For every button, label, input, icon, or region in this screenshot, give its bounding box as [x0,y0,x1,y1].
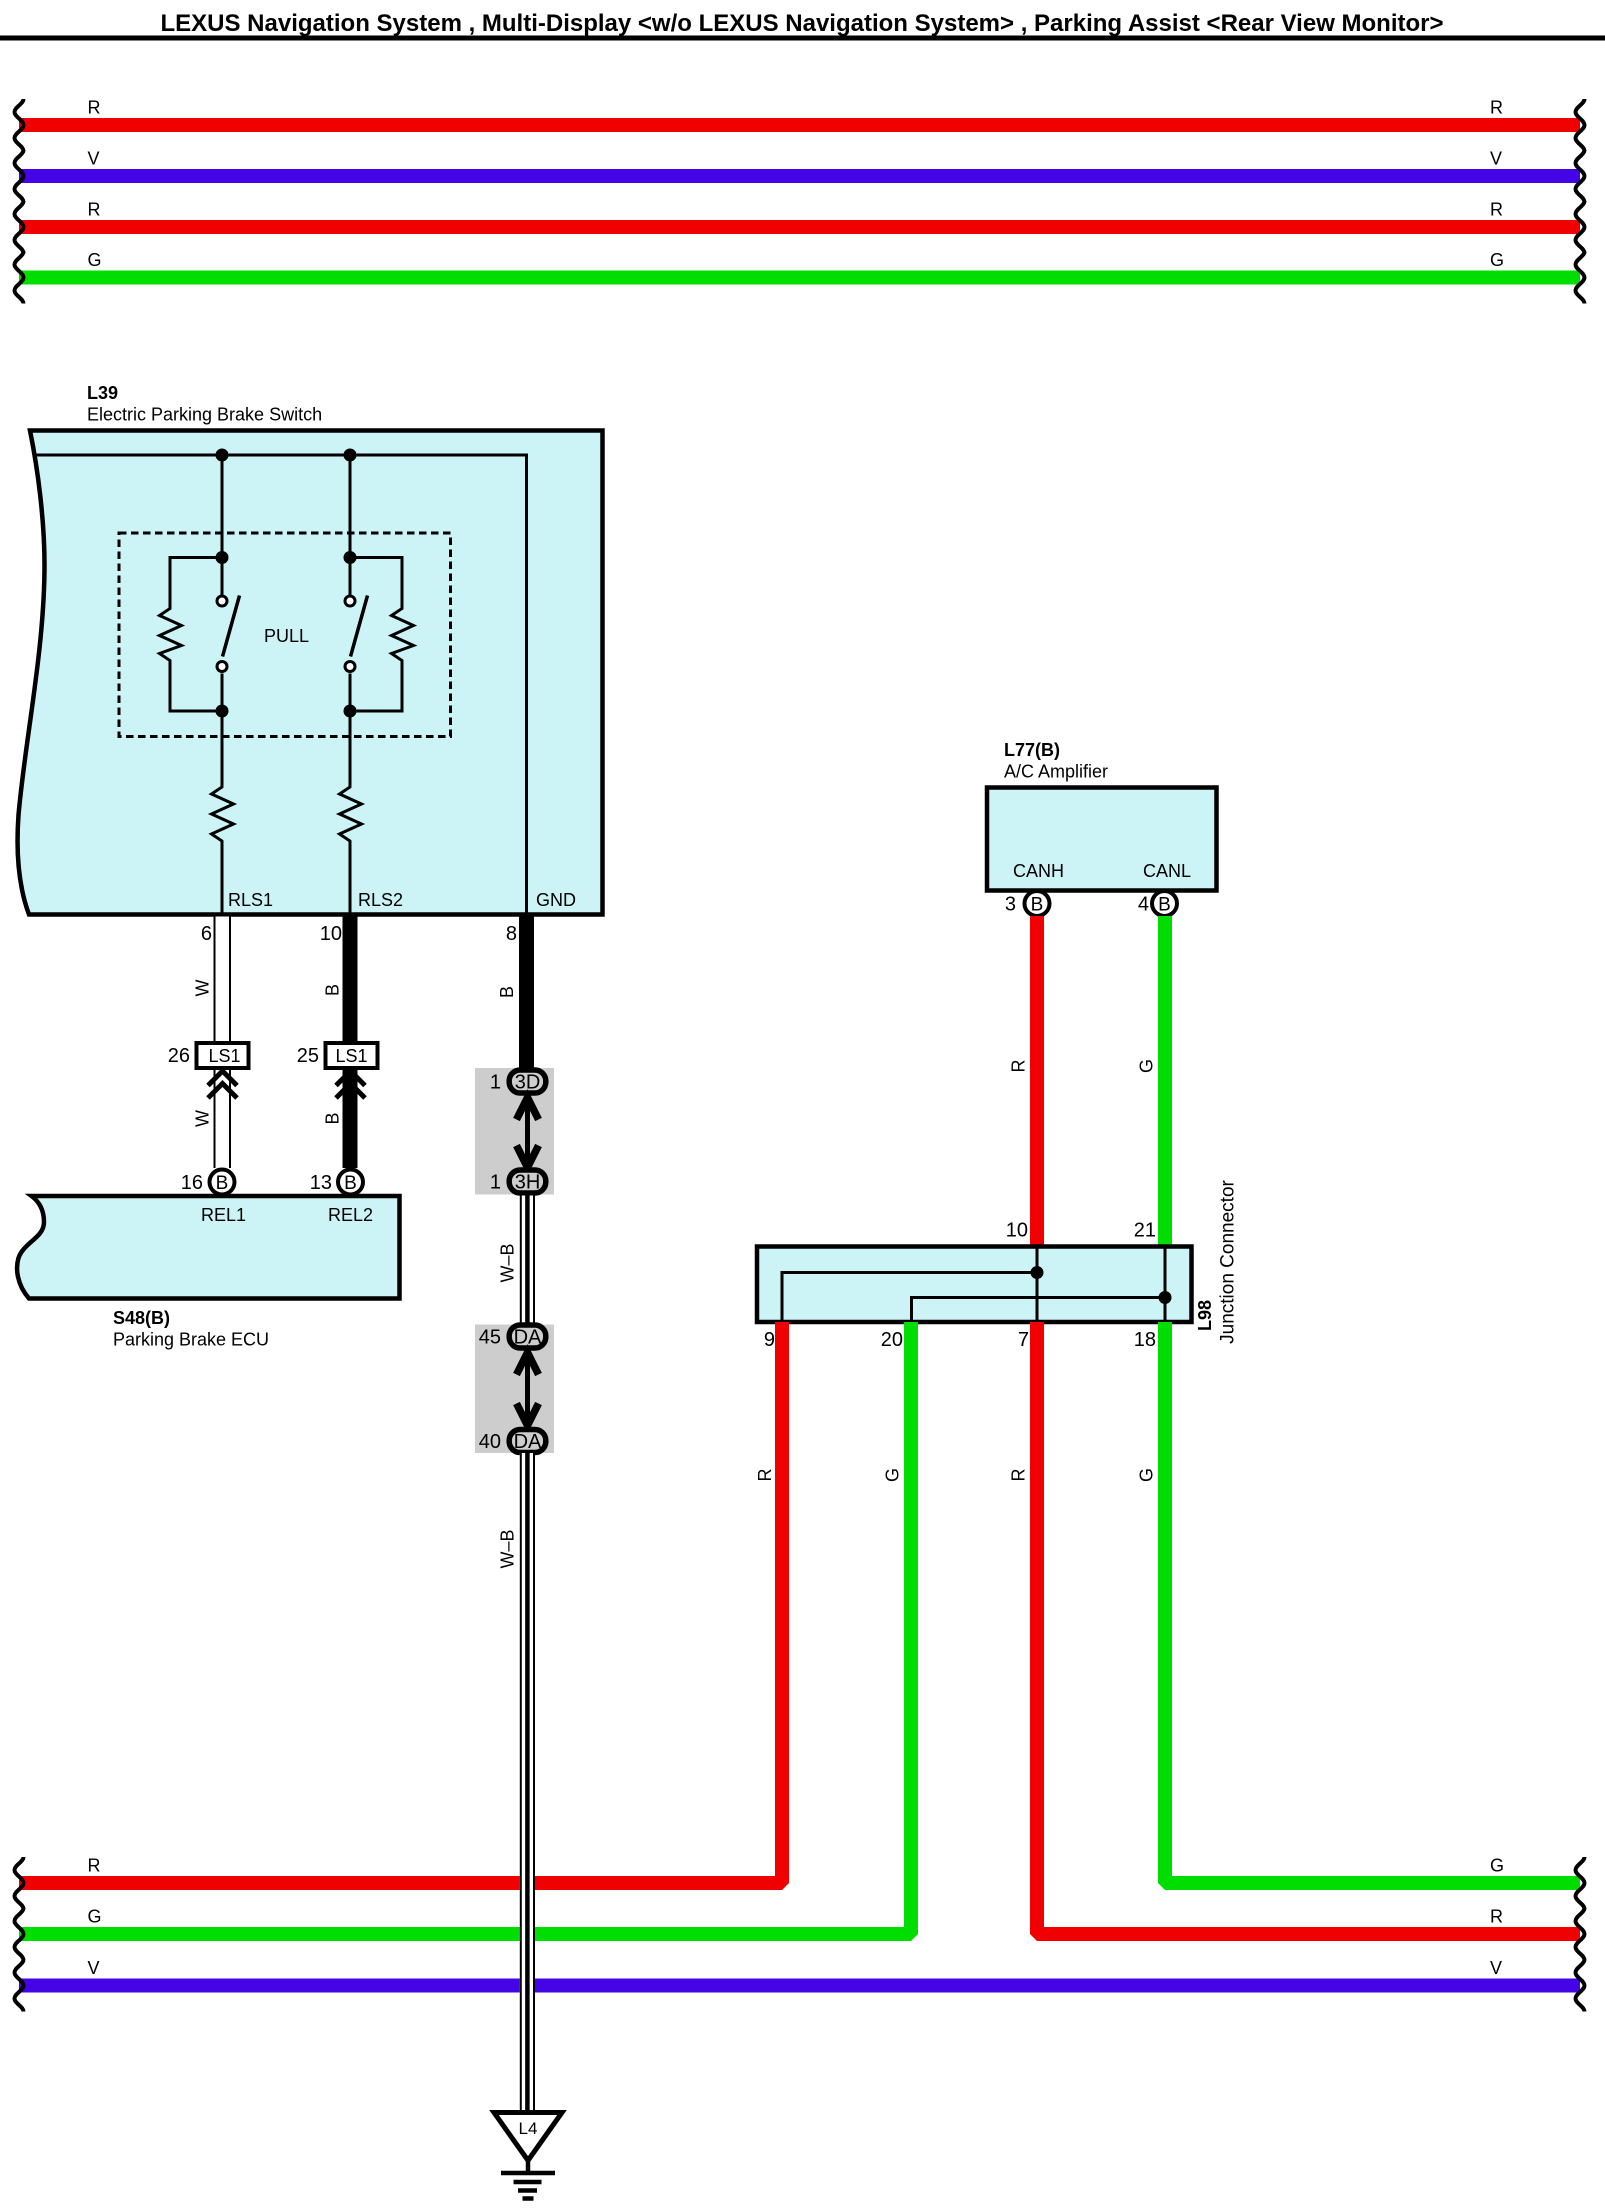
svg-text:9: 9 [764,1329,775,1351]
svg-text:Parking Brake ECU: Parking Brake ECU [113,1330,269,1350]
svg-text:V: V [88,149,100,169]
wire B pin10 to LS1 (black) [343,917,358,1042]
resistor branch of switch unit 1 [160,558,223,712]
svg-text:R: R [88,1856,101,1876]
terminal circle B pin3 [1025,891,1050,916]
connector oval 3D [509,1070,546,1093]
wire between 3D and 3H [525,1094,530,1169]
svg-text:B: B [344,1173,357,1194]
svg-text:R: R [1490,1907,1503,1927]
svg-text:CANL: CANL [1143,861,1191,881]
svg-text:REL2: REL2 [328,1205,373,1225]
component box L39 Electric Parking Brake Switch [18,431,603,915]
svg-text:W–B: W–B [498,1529,518,1568]
svg-text:L98: L98 [1195,1300,1215,1331]
wire G L98 pin18 to right (green, down then right) [1165,1322,1580,1883]
wire top V (violet) [19,169,1580,183]
svg-text:1: 1 [490,1072,501,1094]
dashed switch-unit enclosure [119,533,451,737]
connector block 3D/3H gray panel [475,1068,554,1195]
break symbol right, bottom G wire [1576,1857,1585,1909]
break symbol left, wire top G [15,252,24,304]
svg-text:R: R [1009,1060,1029,1073]
svg-text:A/C Amplifier: A/C Amplifier [1004,762,1108,782]
svg-text:R: R [1490,200,1503,220]
ground bar 3 [518,2188,537,2193]
ground bar 4 [523,2196,534,2201]
node dot L98 green junction [1159,1291,1172,1304]
svg-text:GND: GND [536,890,576,910]
svg-text:L4: L4 [519,2119,538,2138]
break symbol right, wire top R1 [1576,99,1585,151]
ground triangle L4 [494,2113,562,2161]
svg-text:R: R [755,1469,775,1482]
svg-text:3: 3 [1005,894,1016,916]
connector oval 3H [509,1170,546,1193]
wire RLS1 internal with resistor [212,711,234,916]
switch contact circle top unit 2 [345,596,355,606]
connector oval DA pin45 [509,1325,546,1348]
svg-text:G: G [1137,1468,1157,1482]
svg-text:G: G [883,1468,903,1482]
svg-text:G: G [1490,250,1504,270]
wire ground stub [526,2160,531,2173]
component box L77(B) A/C Amplifier [987,788,1217,891]
break symbol left, bottom G wire [15,1908,24,1960]
node dot bottom of switch unit 2 [344,705,357,718]
svg-text:V: V [88,1958,100,1978]
wire W LS1 to REL1 (white double line) [214,1070,232,1168]
connector arrow down toward DA40 [517,1404,539,1426]
svg-text:40: 40 [479,1431,501,1453]
switch blade unit 2 [351,596,368,657]
terminal circle B pin16 [210,1170,235,1195]
svg-text:G: G [1490,1856,1504,1876]
node dot L98 red junction [1031,1266,1044,1279]
svg-text:1: 1 [490,1172,501,1194]
connector LS1 no.26 box [197,1043,249,1068]
svg-text:13: 13 [310,1172,332,1194]
wire internal L98 red path vertical [1036,1247,1039,1323]
svg-text:G: G [88,1907,102,1927]
svg-text:W: W [193,980,213,997]
wire bottom V (violet) [19,1979,1580,1993]
break symbol right, bottom V wire [1576,1960,1585,2012]
svg-text:S48(B): S48(B) [113,1308,170,1328]
wire internal top rail and GND drop [34,455,527,916]
connector arrow down toward 3H [517,1146,539,1168]
svg-text:Junction Connector: Junction Connector [1218,1179,1239,1343]
break symbol left, wire top R1 [15,99,24,151]
svg-text:DA: DA [514,1431,542,1453]
switch contact circle bottom unit 2 [345,662,355,672]
svg-text:PULL: PULL [264,626,309,646]
break symbol right, wire top R2 [1576,201,1585,253]
svg-text:R: R [88,200,101,220]
svg-text:CANH: CANH [1013,861,1064,881]
break symbol left, wire top V [15,150,24,202]
connector LS1 no.25 box [326,1043,378,1068]
node junction dot rail left [216,449,229,462]
svg-text:Electric Parking Brake Switch: Electric Parking Brake Switch [87,405,322,425]
terminal circle B pin4 [1152,891,1177,916]
switch contact circle top unit 1 [217,596,227,606]
wire W-B DA40 to ground L4 (white double line) [520,1453,535,2113]
svg-text:L39: L39 [87,383,118,403]
svg-text:8: 8 [506,923,517,945]
wire W-B 3H to DA45 (white double line) [520,1196,535,1325]
wire R CANH to L98 pin10 (red) [1030,916,1044,1247]
wire top R2 (red) [19,220,1580,234]
node dot top of switch unit 2 [344,551,357,564]
svg-text:4: 4 [1138,894,1149,916]
break symbol left, wire top R2 [15,201,24,253]
connector block DA/DA gray panel [475,1325,554,1454]
svg-text:3H: 3H [515,1172,541,1194]
wire rail to switch unit 2 [349,455,352,558]
svg-text:RLS2: RLS2 [358,890,403,910]
break symbol left, bottom R wire [15,1857,24,1909]
wire top G (green) [19,271,1580,285]
svg-text:18: 18 [1134,1329,1156,1351]
switch blade unit 1 [223,596,240,657]
wire W pin6 to LS1 (white double line) [214,917,232,1042]
ground bar 1 [501,2171,555,2176]
svg-text:10: 10 [320,923,342,945]
svg-text:6: 6 [201,923,212,945]
wire R L98 pin7 to right (red, down then right) [1037,1322,1580,1934]
svg-text:W: W [193,1110,213,1127]
resistor branch of switch unit 2 [350,558,414,712]
wire internal L98 green branch [912,1298,1166,1323]
svg-text:R: R [1490,98,1503,118]
svg-text:LEXUS Navigation System , Mult: LEXUS Navigation System , Multi-Display … [160,10,1443,37]
break symbol left, bottom V wire [15,1960,24,2012]
component box L98 Junction Connector [757,1247,1192,1323]
connector arrow up toward 3D [517,1098,539,1120]
node dot bottom of switch unit 1 [216,705,229,718]
svg-text:B: B [216,1173,229,1194]
svg-text:LS1: LS1 [335,1046,367,1066]
wire top R1 (red) [19,118,1580,132]
wire stub from switch contact unit 1 [221,674,224,712]
svg-text:R: R [88,98,101,118]
component box S48(B) Parking Brake ECU [17,1196,399,1299]
break symbol right, wire top G [1576,252,1585,304]
svg-text:R: R [1009,1469,1029,1482]
svg-text:B: B [497,986,517,998]
break symbol right, bottom R wire [1576,1908,1585,1960]
svg-text:B: B [1031,895,1044,916]
svg-text:RLS1: RLS1 [228,890,273,910]
wire RLS2 internal with resistor [340,711,362,916]
wire stub to switch contact unit 2 [349,558,352,597]
svg-text:7: 7 [1018,1329,1029,1351]
svg-text:B: B [1158,895,1171,916]
title underline rule [0,36,1605,41]
svg-text:G: G [88,250,102,270]
svg-text:W–B: W–B [498,1243,518,1282]
connector arrow up toward DA45 [517,1353,539,1375]
svg-text:16: 16 [181,1172,203,1194]
wire internal L98 red branch [782,1273,1037,1323]
svg-text:LS1: LS1 [208,1046,240,1066]
svg-text:B: B [323,1112,343,1124]
wire internal L98 green path vertical [1164,1247,1167,1323]
connector chevrons on B wire [336,1071,365,1098]
svg-text:26: 26 [168,1045,190,1067]
svg-text:V: V [1490,149,1502,169]
switch contact circle bottom unit 1 [217,662,227,672]
ground bar 2 [514,2180,542,2185]
svg-text:45: 45 [479,1327,501,1349]
svg-text:G: G [1137,1059,1157,1073]
svg-text:L77(B): L77(B) [1004,740,1060,760]
node junction dot rail right [344,449,357,462]
svg-text:20: 20 [881,1329,903,1351]
wire between DA and DA [525,1349,530,1429]
svg-text:25: 25 [297,1045,319,1067]
break symbol right, wire top V [1576,150,1585,202]
svg-text:10: 10 [1006,1220,1028,1242]
connector oval DA pin40 [509,1430,546,1453]
svg-text:21: 21 [1134,1220,1156,1242]
wire stub from switch contact unit 2 [349,674,352,712]
svg-text:REL1: REL1 [201,1205,246,1225]
wire stub to switch contact unit 1 [221,558,224,597]
wire G L98 pin20 to left (green, down then left) [19,1322,911,1934]
terminal circle B pin13 [338,1170,363,1195]
node dot top of switch unit 1 [216,551,229,564]
connector chevrons on W wire [208,1071,237,1098]
wire R L98 pin9 to left (red, down then left) [19,1322,782,1883]
svg-text:V: V [1490,1958,1502,1978]
svg-text:B: B [323,984,343,996]
wire rail to switch unit 1 [221,455,224,558]
wire B LS1 to REL2 (black) [343,1070,358,1168]
wire B pin8 GND to 3D (black) [519,917,534,1069]
wire G CANL to L98 pin21 (green) [1158,916,1172,1247]
